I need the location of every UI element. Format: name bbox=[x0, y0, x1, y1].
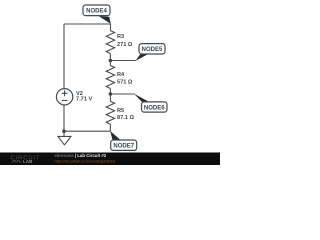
node NODE7 flag bbox=[110, 131, 137, 150]
resistor R3 bbox=[106, 31, 114, 54]
wire: junction to R5 bbox=[109, 94, 111, 101]
watermark title text bbox=[55, 153, 116, 163]
junction dot at ground node bbox=[62, 129, 66, 133]
svg-text:271 Ω: 271 Ω bbox=[117, 42, 133, 48]
label R3 value 271 Ω bbox=[117, 34, 133, 48]
svg-text:R4: R4 bbox=[117, 72, 125, 78]
svg-text:http://circuitlab.com/cxxhfqbh: http://circuitlab.com/cxxhfqbhahb3 bbox=[55, 159, 116, 164]
label V2 value 7.71 V bbox=[76, 91, 92, 103]
svg-text:elexmana | Lab Circuit #2: elexmana | Lab Circuit #2 bbox=[55, 153, 107, 158]
label R4 value 571 Ω bbox=[117, 72, 133, 86]
svg-text:NODE4: NODE4 bbox=[86, 9, 107, 15]
wire: left vertical upper (top corner to V2 top) bbox=[63, 24, 65, 89]
label R5 value 87.1 Ω bbox=[117, 108, 134, 121]
svg-text:LAB: LAB bbox=[23, 159, 33, 164]
watermark bar bbox=[0, 153, 220, 166]
wire: left vertical lower (V2 bottom to bottom wire) bbox=[63, 105, 65, 131]
junction node 5 bbox=[109, 59, 113, 63]
svg-text:7.71 V: 7.71 V bbox=[76, 97, 92, 103]
svg-text:NODE5: NODE5 bbox=[142, 47, 163, 53]
ground bbox=[58, 131, 71, 145]
wire: stub to NODE5 flag bbox=[110, 60, 135, 62]
resistor R4 bbox=[106, 66, 114, 89]
wire: top horizontal from V2 branch to resistor chain bbox=[64, 23, 111, 25]
svg-text:R5: R5 bbox=[117, 108, 124, 114]
svg-text:R3: R3 bbox=[117, 34, 124, 40]
svg-text:87.1 Ω: 87.1 Ω bbox=[117, 115, 134, 121]
svg-text:NODE7: NODE7 bbox=[113, 144, 134, 150]
svg-text:571 Ω: 571 Ω bbox=[117, 80, 133, 86]
node NODE5 flag bbox=[135, 44, 165, 61]
wire: right vertical stub below NODE4 to R3 bbox=[110, 24, 112, 31]
wire: R5 bottom to bottom corner bbox=[109, 124, 111, 131]
svg-text:NODE6: NODE6 bbox=[144, 105, 165, 111]
voltage source V2 bbox=[56, 89, 72, 105]
CircuitLab logo bbox=[11, 156, 41, 165]
resistor R5 bbox=[106, 101, 114, 124]
junction node 6 bbox=[109, 92, 113, 96]
node NODE4 flag bbox=[83, 5, 111, 24]
wire: bottom horizontal bbox=[64, 130, 110, 132]
node NODE6 flag bbox=[134, 94, 167, 113]
wire: junction to R4 bbox=[109, 61, 111, 66]
wire: R3 bottom to node5 junction bbox=[109, 54, 111, 61]
wire: R4 bottom to node6 junction bbox=[109, 89, 111, 95]
wire: stub to NODE6 flag bbox=[110, 93, 134, 95]
